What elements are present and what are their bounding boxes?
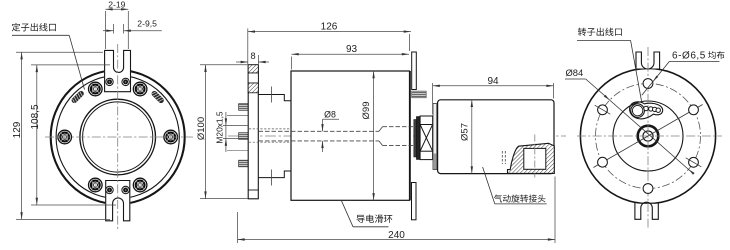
svg-text:Ø100: Ø100 (196, 117, 207, 140)
horizontal centerline left view (45, 136, 193, 138)
knurled screw 1 on left view (164, 130, 178, 144)
wire bundle at cylinder right face (412, 91, 427, 98)
stator wire outlet slot at 45 deg (150, 90, 165, 105)
svg-text:129: 129 (12, 121, 23, 138)
cap ring lower grey part (433, 154, 436, 170)
coupling collar ring 2 (416, 117, 420, 160)
label pneumatic rotary joint (494, 194, 545, 202)
svg-text:Ø84: Ø84 (566, 67, 584, 78)
bolt hole 6 (6-Ø6,5) (689, 157, 699, 167)
label rotor wire outlet (zhuan zi chu xian kou) (578, 28, 622, 36)
label stator wire outlet (ding zi chu xian kou) (12, 23, 56, 31)
hub hidden edge tick top (271, 87, 273, 103)
flange plate side view (248, 65, 258, 199)
fitting centerline (534, 135, 536, 178)
svg-text:Ø8: Ø8 (324, 110, 336, 120)
knurled screw 6 on left view (133, 178, 147, 192)
dimension 94 (432, 83, 434, 114)
pneumatic small cylinder body (438, 100, 554, 174)
hidden bore dashed bottom (259, 140, 380, 142)
knurled screw 3 on left view (89, 82, 103, 96)
hidden bore dashed top (259, 130, 380, 132)
dimension Ø100 (200, 64, 248, 66)
rotor tab top (side view) (412, 52, 417, 90)
flange hatch top section (248, 65, 258, 73)
hub hidden edge tick bottom (271, 170, 273, 186)
diagonal hole axis line (593, 105, 702, 168)
bottom tab screw right (122, 186, 129, 193)
top tab screw left (106, 78, 113, 85)
stud hidden line lower (227, 149, 248, 151)
bottom tab screw left (106, 186, 113, 193)
dimension Ø99 (373, 71, 375, 200)
knurled screw 5 on left view (89, 178, 103, 192)
svg-text:93: 93 (346, 44, 358, 55)
rotor wire outlet kidney slot (630, 102, 663, 119)
hidden thread dashes bottom (249, 141, 291, 143)
kidney small hole 2 (649, 107, 653, 111)
bolt hole 3 (6-Ø6,5) (598, 105, 608, 115)
vertical centerline left view (117, 44, 119, 230)
fitting bore cavity (524, 148, 546, 169)
flange wire slot hole section (248, 73, 258, 83)
dimension 8 flange thickness (247, 29, 249, 65)
dimension 240 (237, 212, 239, 243)
threaded stud M20x1,5 at y=107 (239, 104, 249, 111)
center shaft hole (643, 131, 653, 141)
hidden bore flare (379, 127, 383, 132)
bolt hole 1 (6-Ø6,5) (643, 79, 653, 89)
cylinder right face inner line (409, 71, 411, 200)
hub boss behind flange (258, 95, 291, 178)
svg-text:2-19: 2-19 (108, 0, 125, 9)
right view vertical centerline (647, 47, 649, 228)
dimension Ø57 (471, 100, 473, 174)
bolt circle dash-dot (596, 84, 701, 189)
pneumatic rotary joint fitting (sectioned) (508, 143, 555, 173)
svg-text:Ø99: Ø99 (361, 102, 372, 120)
svg-text:240: 240 (388, 230, 405, 241)
kidney small hole 4 (656, 108, 660, 112)
top tab screw right (122, 78, 129, 85)
bolt hole 2 (6-Ø6,5) (689, 105, 699, 115)
dimension 108,5 (31, 64, 110, 66)
left view bore circle inner (83, 102, 153, 172)
rotor tab bottom (side view) (412, 183, 417, 220)
left view inner rim circle (56, 75, 179, 198)
slip ring main cylinder (291, 71, 410, 200)
svg-text:8: 8 (250, 51, 255, 61)
middle view centerline (228, 135, 566, 137)
hidden thread dashes top (249, 128, 291, 130)
cap ring of small cylinder (433, 104, 437, 170)
svg-text:2-9,5: 2-9,5 (137, 18, 157, 28)
svg-text:6-Ø6,5: 6-Ø6,5 (672, 50, 706, 61)
threaded stud M20x1,5 at y=163 (239, 160, 249, 167)
center boss ring (638, 126, 659, 147)
bottom mounting tab left view (105, 181, 130, 221)
right end view outer circle (580, 68, 715, 203)
svg-text:108,5: 108,5 (30, 104, 41, 129)
kidney small hole 3 (653, 107, 657, 111)
svg-text:M20x1,5: M20x1,5 (214, 111, 224, 143)
right view horizontal centerline (577, 135, 722, 137)
threaded stud M20x1,5 at y=136 (239, 133, 249, 140)
svg-text:126: 126 (321, 21, 338, 32)
svg-text:Ø57: Ø57 (459, 123, 470, 141)
flange hatch second section (248, 83, 258, 93)
kidney small hole 1 (644, 106, 648, 110)
label conductive slip ring (dao dian hua huan) (357, 214, 393, 222)
svg-text:94: 94 (487, 76, 499, 87)
dimension 129 (16, 51, 103, 53)
dimension M20x1,5 (223, 125, 248, 127)
hidden air passage dashes (501, 151, 503, 164)
coupling collar ring 1 (414, 120, 417, 158)
dimension 93 (292, 53, 410, 55)
bolt hole 4 (6-Ø6,5) (598, 157, 608, 167)
stator wire outlet slot at 135 deg (70, 90, 85, 105)
rotor flange circle (613, 101, 683, 171)
right view top tab (636, 52, 660, 69)
flange bottom step line (248, 189, 258, 191)
bearing box with X (420, 116, 433, 160)
left end view: flange outer circle (51, 70, 185, 204)
stud hidden line upper (227, 115, 248, 117)
dimension 126 (248, 31, 411, 33)
kidney slot big hole (631, 104, 645, 118)
knurled screw 2 on left view (133, 82, 147, 96)
top mounting tab left view (104, 50, 131, 91)
knurled screw 4 on left view (58, 130, 72, 144)
right view bottom tab (635, 204, 658, 220)
left view bore circle outer (80, 99, 156, 175)
bolt hole 5 (6-Ø6,5) (643, 184, 653, 194)
